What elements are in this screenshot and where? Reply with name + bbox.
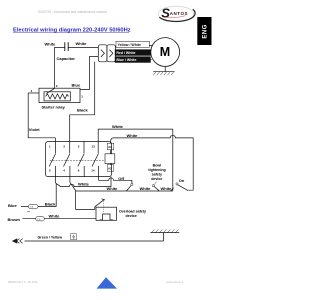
- switch block: [45, 142, 111, 177]
- junction terminal 2 to A2 white wire: [56, 177, 111, 187]
- svg-text:White: White: [49, 213, 61, 218]
- svg-text:Blue: Blue: [8, 203, 17, 208]
- bottom stubs: [56, 166, 99, 183]
- wire blue input: [21, 206, 28, 208]
- overload heater element: [100, 214, 113, 220]
- svg-text:Blue / White: Blue / White: [116, 58, 136, 62]
- svg-text:13: 13: [92, 145, 96, 149]
- svg-text:Starter relay: Starter relay: [42, 104, 66, 109]
- junction seat: [171, 188, 174, 191]
- wire yellow/white to motor: [115, 45, 152, 46]
- svg-text:White: White: [127, 133, 139, 138]
- ENG tab: [197, 17, 211, 45]
- earth ground bar: [150, 232, 179, 234]
- wire brown input: [22, 218, 96, 220]
- svg-text:Overload safety: Overload safety: [119, 209, 146, 213]
- svg-text:White: White: [112, 124, 124, 129]
- svg-text:Capacitor: Capacitor: [57, 56, 76, 61]
- off switch: [131, 183, 133, 185]
- svg-text:safety: safety: [152, 173, 162, 177]
- svg-text:Black: Black: [77, 107, 88, 112]
- svg-text:A2: A2: [108, 166, 112, 170]
- A1 terminal box: [107, 143, 114, 150]
- starter relay inner element: [44, 92, 70, 101]
- Santos logo: [158, 5, 195, 21]
- connector plug cells: [98, 45, 107, 62]
- starter relay box: [39, 88, 80, 102]
- svg-text:tightening: tightening: [148, 168, 165, 172]
- svg-text:device: device: [151, 177, 162, 181]
- svg-text:Blue: Blue: [72, 83, 81, 88]
- wire white left of capacitor down to relay: [55, 47, 65, 88]
- svg-text:14: 14: [91, 168, 95, 172]
- svg-text:Brown: Brown: [8, 217, 21, 222]
- svg-text:White: White: [161, 186, 173, 191]
- svg-text:Black: Black: [45, 201, 56, 206]
- svg-text:White: White: [45, 41, 57, 46]
- svg-text:White: White: [140, 186, 152, 191]
- capacitor C plates: [65, 42, 68, 51]
- blue input terminal lug 1,5: [28, 204, 38, 208]
- contact 1 stub: [54, 138, 56, 154]
- svg-text:ENG: ENG: [202, 24, 208, 39]
- svg-text:Red / White: Red / White: [116, 51, 135, 55]
- motor ground: [164, 66, 166, 71]
- switch rail: [76, 190, 173, 192]
- wire white right of capacitor to connector: [68, 46, 98, 48]
- wire black connector to contact 3: [70, 62, 95, 154]
- A2 terminal box: [107, 165, 114, 172]
- wire red/white to motor: [115, 51, 150, 53]
- wire contact4 down: [70, 182, 95, 209]
- svg-text:SANTOS : Instructions and main: SANTOS : Instructions and maintenance ma…: [38, 10, 107, 14]
- connector pin chevron 2: [109, 50, 113, 57]
- svg-text:White: White: [76, 41, 88, 46]
- wire green yellow: [25, 233, 164, 241]
- coil box: [105, 154, 115, 164]
- starter relay coil zigzag: [46, 94, 69, 99]
- svg-text:Violet: Violet: [29, 127, 40, 132]
- svg-text:White: White: [107, 186, 119, 191]
- starter relay blade: [46, 88, 54, 93]
- wire colour label boxes at motor: [115, 41, 151, 62]
- svg-text:White: White: [78, 181, 90, 186]
- mechanical link dashed: [50, 159, 105, 161]
- bowl switch: [152, 185, 154, 187]
- svg-text:www.santos.fr: www.santos.fr: [166, 280, 183, 284]
- wire white A1 to On switch: [110, 135, 193, 190]
- overload box: [96, 207, 117, 220]
- earth wire plug chevrons: [17, 239, 23, 244]
- wire blue relay to connector: [80, 56, 98, 89]
- wire white contact13 top: [98, 129, 173, 153]
- svg-text:M: M: [160, 45, 170, 59]
- svg-text:98298 GB 2.4 - 06 2010: 98298 GB 2.4 - 06 2010: [8, 280, 38, 284]
- svg-text:Off: Off: [118, 176, 124, 181]
- wire white down to bowl switch: [172, 129, 174, 191]
- contact blades: [49, 154, 98, 167]
- wire violet: [28, 93, 55, 138]
- svg-text:Yellow / White: Yellow / White: [118, 43, 141, 47]
- coil terminal stubs A1-A2: [109, 150, 111, 165]
- brown input terminal lug 1,5: [36, 217, 45, 221]
- diagram text labels: [8, 41, 185, 240]
- svg-text:Bowl: Bowl: [153, 164, 162, 168]
- earth symbol box: [71, 234, 77, 240]
- svg-text:~: ~: [27, 209, 30, 214]
- wire relay terminal 4: [28, 92, 39, 94]
- green/yellow plug arrow: [12, 238, 17, 243]
- wire blue/white to motor: [115, 58, 151, 60]
- contact 5 stub: [83, 141, 85, 153]
- svg-text:ANTOS: ANTOS: [170, 11, 188, 16]
- connector pin chevron 1: [101, 50, 105, 57]
- motor M circle: [151, 38, 180, 67]
- wire contact14 to Off switch: [98, 178, 131, 183]
- svg-text:device: device: [126, 214, 137, 218]
- svg-text:On: On: [179, 178, 185, 183]
- svg-text:A1: A1: [108, 145, 112, 149]
- on switch: [176, 183, 178, 185]
- svg-text:Green / Yellow: Green / Yellow: [38, 236, 63, 240]
- overload blade: [95, 199, 105, 207]
